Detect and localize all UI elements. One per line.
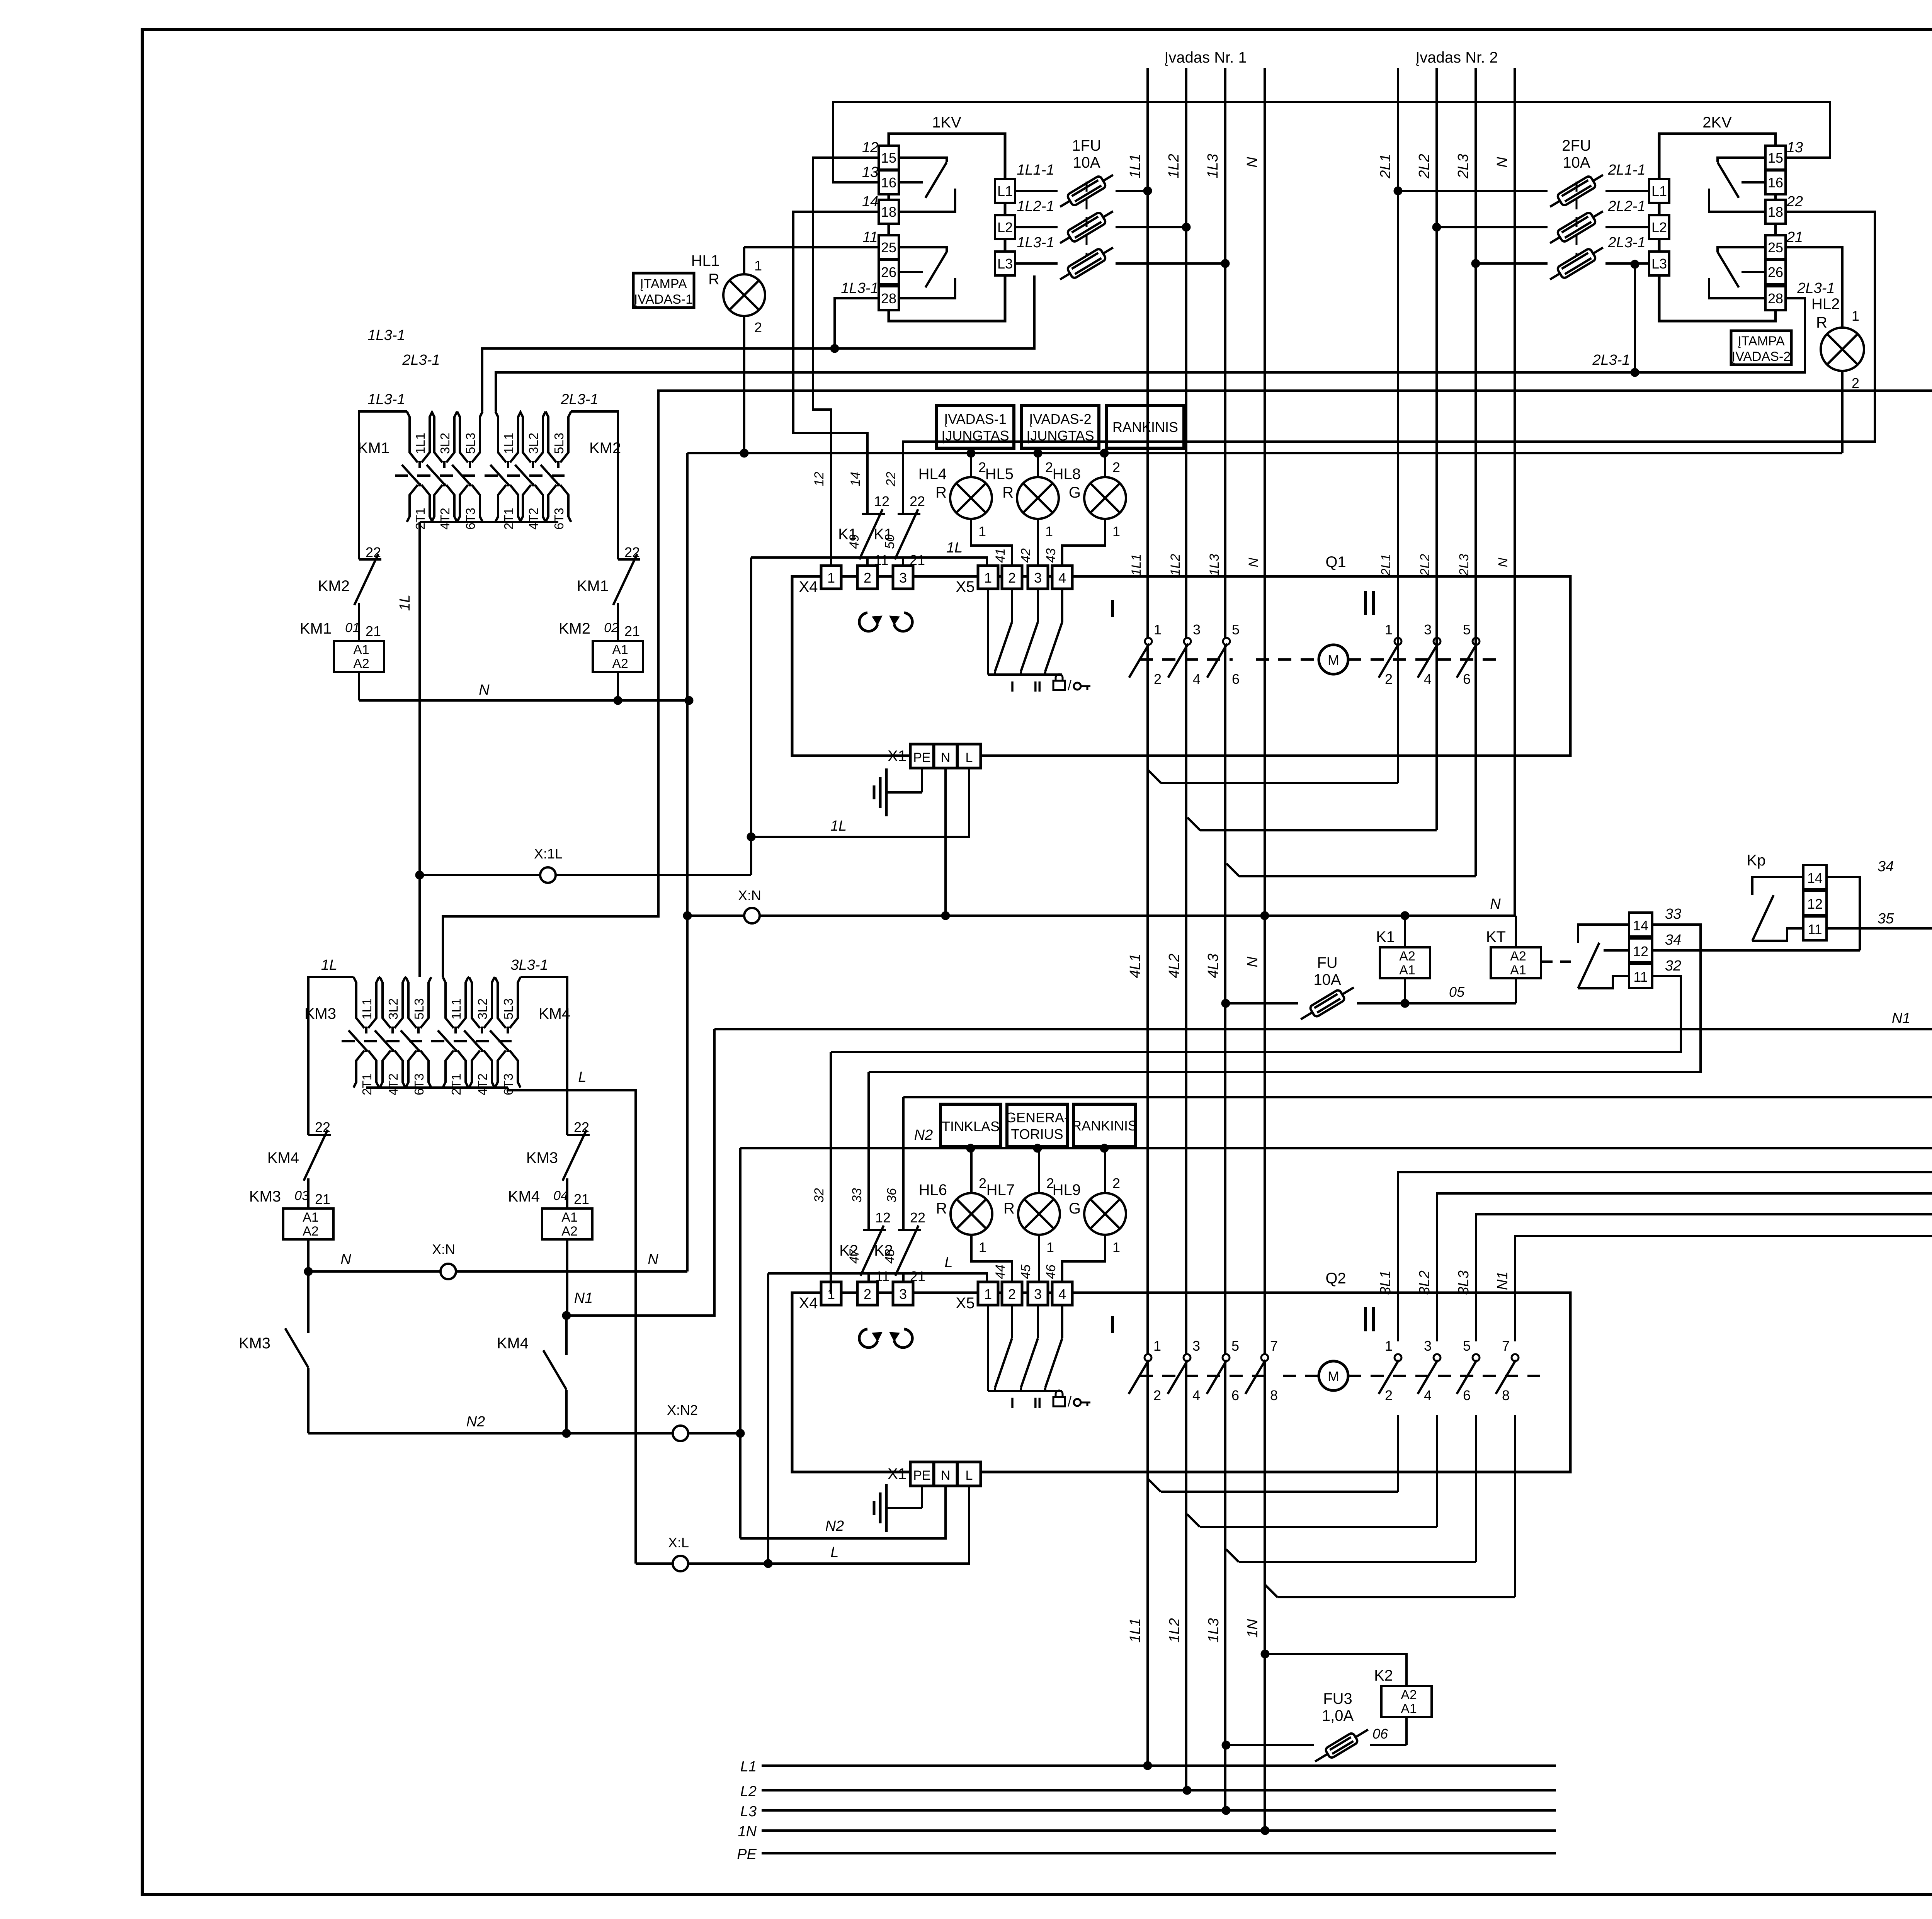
svg-text:12: 12 xyxy=(812,472,827,486)
svg-text:44: 44 xyxy=(993,1265,1008,1279)
svg-text:2L3-1: 2L3-1 xyxy=(560,391,598,408)
svg-text:2L2-1: 2L2-1 xyxy=(1607,198,1645,214)
wire 36 horizontal xyxy=(903,1096,1932,1098)
svg-text:4: 4 xyxy=(1424,1387,1432,1403)
label box RANKINIS xyxy=(1107,406,1184,448)
dashed mechanical link xyxy=(395,474,565,477)
svg-text:A1: A1 xyxy=(1399,963,1415,977)
svg-text:34: 34 xyxy=(1878,858,1894,875)
svg-text:1L: 1L xyxy=(830,818,847,834)
wire 4L3 jog xyxy=(1226,863,1239,876)
pole blade xyxy=(1207,644,1227,678)
svg-text:R: R xyxy=(1816,314,1827,331)
svg-text:1L1: 1L1 xyxy=(449,998,463,1020)
wire HL7 pin1 to X5:3 xyxy=(1038,1235,1040,1283)
terminal X5:4 xyxy=(1052,566,1072,589)
svg-text:16: 16 xyxy=(881,175,896,190)
wire 1L3-1 left bus elbow xyxy=(359,411,407,559)
svg-text:2: 2 xyxy=(1154,671,1162,687)
svg-text:6T3: 6T3 xyxy=(463,508,478,530)
svg-text:1: 1 xyxy=(978,524,986,539)
label box RANKINIS 2 xyxy=(1073,1104,1135,1147)
pole terminal 5L3 of KM1 xyxy=(457,411,468,462)
svg-text:Q1: Q1 xyxy=(1325,554,1346,571)
svg-text:2L3: 2L3 xyxy=(1455,154,1471,178)
svg-text:N: N xyxy=(1494,157,1510,168)
svg-text:3: 3 xyxy=(1034,1286,1042,1302)
pole terminal 1L1 of KM3 xyxy=(354,977,364,1028)
pole terminal 6T3 xyxy=(557,483,560,486)
svg-text:X5: X5 xyxy=(956,578,975,595)
pole blade xyxy=(1129,1360,1149,1394)
junction 2L1-1 on feeder xyxy=(1394,187,1402,195)
svg-text:1N: 1N xyxy=(1245,1619,1261,1638)
svg-text:A1: A1 xyxy=(612,642,628,657)
svg-text:ĮJUNGTAS: ĮJUNGTAS xyxy=(941,428,1009,444)
svg-text:4L3: 4L3 xyxy=(1205,954,1221,978)
svg-text:Įvadas Nr. 1: Įvadas Nr. 1 xyxy=(1164,49,1247,66)
svg-text:KM4: KM4 xyxy=(267,1149,299,1166)
svg-text:2L3: 2L3 xyxy=(1457,554,1471,576)
svg-text:1L3-1: 1L3-1 xyxy=(367,327,405,343)
terminal X:N upper xyxy=(744,908,760,923)
svg-text:6: 6 xyxy=(1463,1387,1471,1403)
svg-text:KT: KT xyxy=(1486,928,1506,945)
svg-text:22: 22 xyxy=(910,1210,925,1226)
voltage relay 1KV xyxy=(889,134,1005,321)
svg-text:KM1: KM1 xyxy=(577,578,609,595)
svg-text:KM2: KM2 xyxy=(559,620,590,637)
svg-text:1: 1 xyxy=(1045,524,1053,539)
bus L1 xyxy=(762,1764,1556,1767)
fuse 1FU pole L2 xyxy=(1015,226,1058,228)
junction 2L2-1 on feeder xyxy=(1432,223,1441,231)
contact blade of pole xyxy=(490,1030,509,1051)
svg-text:L1: L1 xyxy=(740,1759,757,1775)
svg-text:2KV: 2KV xyxy=(1702,114,1732,131)
svg-text:2: 2 xyxy=(1385,671,1393,687)
svg-text:1: 1 xyxy=(984,1286,992,1302)
svg-text:A1: A1 xyxy=(353,642,369,657)
svg-text:18: 18 xyxy=(1768,204,1783,220)
svg-text:X:N: X:N xyxy=(738,887,761,903)
terminal 1KV:L2 xyxy=(995,215,1015,239)
junction 1L xyxy=(747,833,755,841)
svg-text:48: 48 xyxy=(883,1249,897,1264)
wire HL1 pin2 to N xyxy=(743,316,745,453)
wire 2L2 into Q1 pole xyxy=(1435,634,1438,830)
svg-text:8: 8 xyxy=(1270,1387,1278,1403)
junction 2L3-1 on feeder xyxy=(1471,259,1480,268)
svg-text:2: 2 xyxy=(1008,570,1016,586)
svg-text:1L3: 1L3 xyxy=(1206,1618,1222,1642)
svg-text:3L2: 3L2 xyxy=(475,998,490,1020)
wire X:1L line xyxy=(420,874,751,876)
wire 2L2 vertical (Įvadas-2 L2) xyxy=(1435,68,1438,830)
svg-text:02: 02 xyxy=(604,620,619,635)
contact blade of pole xyxy=(375,1030,394,1051)
terminal 1KV:16 xyxy=(879,170,899,194)
svg-text:21: 21 xyxy=(624,623,640,639)
wire 4L2 jog xyxy=(1187,818,1200,830)
svg-text:2L1: 2L1 xyxy=(1378,154,1394,178)
wire 2L1 into Q1 pole xyxy=(1397,634,1399,783)
svg-text:N: N xyxy=(648,1251,658,1268)
svg-text:RANKINIS: RANKINIS xyxy=(1112,419,1178,435)
pole blade xyxy=(1245,1360,1265,1394)
wire 35 from Kp:11 xyxy=(1827,927,1932,930)
svg-text:A2: A2 xyxy=(1401,1688,1417,1702)
svg-text:L3: L3 xyxy=(997,256,1013,272)
pole blade xyxy=(1168,1360,1188,1394)
junction N2 HL6 xyxy=(966,1144,975,1152)
coil KM4 xyxy=(542,1209,592,1239)
svg-text:5L3: 5L3 xyxy=(412,998,426,1020)
junction 2L3-1 xyxy=(1631,368,1639,377)
fuse 1FU pole L3 xyxy=(1015,262,1058,265)
dashed drive shaft xyxy=(1140,1375,1273,1377)
svg-text:46: 46 xyxy=(1044,1265,1058,1279)
svg-text:1: 1 xyxy=(1154,622,1162,637)
svg-text:10A: 10A xyxy=(1073,154,1100,171)
switch Q2 enclosure xyxy=(792,1293,1570,1472)
svg-text:L: L xyxy=(830,1544,838,1560)
pole blade xyxy=(1168,644,1188,678)
svg-text:KM4: KM4 xyxy=(497,1335,529,1352)
lock/key icon xyxy=(1053,1397,1065,1406)
svg-text:L2: L2 xyxy=(997,219,1013,235)
svg-text:2: 2 xyxy=(864,570,871,586)
svg-text:Kp: Kp xyxy=(1747,852,1766,869)
svg-text:4L1: 4L1 xyxy=(1127,954,1143,978)
fuse 2FU pole L3 xyxy=(1605,262,1649,265)
lock/key icon xyxy=(1053,681,1065,690)
wire N of KM3 xyxy=(308,1270,687,1273)
svg-text:03: 03 xyxy=(294,1188,309,1203)
svg-text:FU: FU xyxy=(1317,954,1337,971)
pole terminal 4T2 xyxy=(443,483,446,486)
svg-text:2: 2 xyxy=(1112,1175,1120,1191)
svg-text:47: 47 xyxy=(847,1249,862,1264)
terminal 2KV:L3 xyxy=(1649,252,1669,275)
svg-text:11: 11 xyxy=(1808,921,1822,937)
svg-text:A2: A2 xyxy=(303,1224,319,1239)
svg-text:22: 22 xyxy=(574,1119,589,1135)
wire N of KM coils xyxy=(359,699,689,702)
svg-text:11: 11 xyxy=(875,1268,889,1284)
wire 33 drop to K2 contact xyxy=(867,1072,870,1223)
wire 11 (1KV:25 to lamp HL1) xyxy=(744,246,879,248)
svg-text:2L3-1: 2L3-1 xyxy=(1607,235,1645,251)
svg-text:3: 3 xyxy=(1424,1338,1432,1354)
svg-text:X:N: X:N xyxy=(432,1241,455,1257)
wire X1:L to 1L xyxy=(751,768,969,837)
svg-text:43: 43 xyxy=(1044,548,1058,563)
svg-text:L: L xyxy=(944,1254,952,1271)
wire N1 long xyxy=(714,1028,1932,1030)
svg-text:KM2: KM2 xyxy=(589,440,621,457)
svg-text:6: 6 xyxy=(1231,1387,1239,1403)
svg-text:N: N xyxy=(340,1251,351,1268)
svg-text:21: 21 xyxy=(366,623,381,639)
svg-text:HL1: HL1 xyxy=(691,252,719,269)
aux contact KM1 21-22 xyxy=(618,558,640,561)
pole pin 3 xyxy=(1184,638,1191,645)
svg-text:1: 1 xyxy=(1046,1239,1054,1255)
svg-text:K2: K2 xyxy=(1374,1667,1393,1684)
wire 3L3 to Q2 pole xyxy=(1476,1214,1932,1341)
svg-text:1N: 1N xyxy=(738,1824,757,1840)
terminal 1KV:L1 xyxy=(995,179,1015,203)
svg-text:06: 06 xyxy=(1372,1726,1388,1742)
label wire 1L to X5:1 xyxy=(751,558,987,566)
junction N HL5 xyxy=(1034,449,1042,457)
svg-text:50: 50 xyxy=(883,534,897,549)
svg-text:12: 12 xyxy=(1633,943,1648,959)
wire coil KM1 to N xyxy=(358,672,360,700)
contact blade of pole xyxy=(427,465,446,486)
svg-text:HL2: HL2 xyxy=(1811,296,1840,313)
svg-text:12: 12 xyxy=(875,1210,891,1226)
wire 2L3-1 right bus elbow xyxy=(571,411,618,559)
position I bar xyxy=(1111,1316,1114,1333)
pole pin 1 xyxy=(1395,1354,1401,1361)
wire X1:N down to X:N line xyxy=(944,768,947,916)
pole pin 5 xyxy=(1473,1354,1480,1361)
svg-text:X4: X4 xyxy=(799,1295,818,1312)
pole terminal 3L2 of KM4 xyxy=(469,977,480,1028)
pole terminal 5L3 of KM3 xyxy=(406,977,417,1028)
svg-text:6: 6 xyxy=(1463,671,1471,687)
svg-text:1L: 1L xyxy=(321,957,337,973)
svg-text:KM1: KM1 xyxy=(358,440,389,457)
terminal 2KV:L2 xyxy=(1649,215,1669,239)
pole terminal 3L2 of KM2 xyxy=(520,411,531,462)
wire L riser xyxy=(767,1273,769,1564)
svg-text:N2: N2 xyxy=(825,1518,844,1534)
pole blade xyxy=(1379,1360,1399,1394)
svg-text:I: I xyxy=(1010,1395,1015,1411)
wire HL6 pin1 to X5:2 xyxy=(971,1235,1012,1283)
svg-text:N2: N2 xyxy=(466,1414,485,1430)
svg-text:A2: A2 xyxy=(1510,949,1526,964)
junction N mains xyxy=(1260,911,1269,920)
terminal 2KV:26 xyxy=(1765,260,1786,284)
svg-text:3L1: 3L1 xyxy=(1378,1270,1394,1295)
svg-text:HL9: HL9 xyxy=(1053,1181,1081,1198)
wire 1L1 vertical (Įvadas-1 L1) xyxy=(1146,68,1149,1766)
svg-text:34: 34 xyxy=(1665,932,1681,948)
svg-text:X:N2: X:N2 xyxy=(667,1402,698,1418)
svg-text:RANKINIS: RANKINIS xyxy=(1071,1118,1137,1134)
svg-text:II: II xyxy=(1033,679,1041,695)
svg-text:PE: PE xyxy=(913,750,930,765)
wire 1L output xyxy=(418,522,421,977)
svg-text:II: II xyxy=(1033,1395,1041,1411)
svg-text:L: L xyxy=(966,750,973,765)
svg-text:TINKLAS: TINKLAS xyxy=(942,1118,1000,1134)
svg-text:1L2-1: 1L2-1 xyxy=(1017,198,1054,214)
svg-text:R: R xyxy=(1002,484,1014,501)
wire N riser xyxy=(686,453,689,1271)
junction 06 on 1L3 xyxy=(1222,1741,1230,1749)
svg-text:22: 22 xyxy=(366,544,381,560)
wire X:N line xyxy=(687,914,1516,917)
svg-text:L2: L2 xyxy=(740,1783,757,1800)
aux contact KM3 21-22 xyxy=(567,1134,590,1136)
wire HL4 pin1 to X5:2 xyxy=(971,519,1012,566)
wire 36 drop to K2 contact xyxy=(902,1097,905,1223)
lamp HL2 xyxy=(1821,328,1864,371)
svg-text:32: 32 xyxy=(1665,958,1681,974)
svg-text:1: 1 xyxy=(984,570,992,586)
wire 3L2 to Q2 pole xyxy=(1437,1193,1932,1341)
svg-text:1L3: 1L3 xyxy=(1207,554,1222,576)
wire N2 control line xyxy=(740,1147,1932,1149)
wire N1 to Q2 pole xyxy=(1515,1236,1932,1341)
terminal X:1L xyxy=(540,867,556,883)
pole terminal 1L1 of KM1 xyxy=(407,411,418,462)
control switch blades xyxy=(987,1306,989,1391)
svg-text:2L3-1: 2L3-1 xyxy=(1797,280,1835,296)
svg-text:12: 12 xyxy=(1807,896,1823,912)
svg-text:1L1: 1L1 xyxy=(1127,1618,1143,1642)
svg-text:2L3-1: 2L3-1 xyxy=(402,352,440,368)
junction 1N K2 xyxy=(1261,1650,1269,1658)
contact Kp changeover xyxy=(1803,865,1827,889)
lamp HL7 xyxy=(1018,1193,1060,1235)
wire coil KM2 to N xyxy=(617,672,619,700)
wire 1L2 vertical (Įvadas-1 L2) xyxy=(1185,68,1187,1790)
svg-text:6T3: 6T3 xyxy=(552,508,566,530)
wire 2L3-1 (2KV:28 to KM2 bus) xyxy=(1635,298,1805,372)
svg-text:2T1: 2T1 xyxy=(360,1073,374,1095)
junction N2 HL9 xyxy=(1100,1144,1109,1152)
svg-text:1: 1 xyxy=(1153,1338,1161,1354)
wire 22 (2KV:18 to K1 contact 2) xyxy=(903,212,1875,507)
junction N2 to Q2 xyxy=(736,1429,745,1438)
svg-text:4: 4 xyxy=(1058,1286,1066,1302)
ground of Q1 xyxy=(886,791,922,794)
wire N2 bottom xyxy=(308,1432,740,1435)
pole pin 1 xyxy=(1145,638,1152,645)
svg-text:2L3-1: 2L3-1 xyxy=(1592,352,1630,368)
svg-text:01: 01 xyxy=(345,620,360,635)
wire 34 from KT:12 xyxy=(1652,949,1860,952)
svg-text:KM4: KM4 xyxy=(508,1188,540,1205)
svg-text:4: 4 xyxy=(1058,570,1066,586)
wire L output of KM4 xyxy=(508,1088,636,1564)
terminal X:N2 xyxy=(673,1426,688,1441)
wire L to X5:1 of Q2 xyxy=(768,1273,987,1283)
wire 1L3-1 (1KV:28 to KM1 bus) xyxy=(835,298,879,348)
svg-text:L: L xyxy=(578,1069,586,1085)
svg-text:N: N xyxy=(479,682,490,698)
label box ĮTAMPA ĮVADAS-1 xyxy=(633,273,694,308)
contact K2 (22-21) xyxy=(902,1223,905,1230)
terminal X5:1 xyxy=(978,1282,998,1305)
svg-text:8: 8 xyxy=(1502,1387,1510,1403)
aux contact KM4 21-22 xyxy=(308,1134,331,1136)
svg-text:Q2: Q2 xyxy=(1325,1270,1346,1287)
wire PE to earth Q2 xyxy=(921,1486,923,1508)
pole blade xyxy=(1207,1360,1227,1394)
svg-text:15: 15 xyxy=(1768,150,1783,166)
junction 1L1-1 on feeder xyxy=(1143,187,1152,195)
svg-text:L2: L2 xyxy=(1651,219,1667,235)
lamp HL8 xyxy=(1084,477,1126,519)
svg-text:22: 22 xyxy=(910,493,925,509)
pole terminal 4T2 xyxy=(391,1049,394,1052)
terminal X:N xyxy=(440,1264,456,1279)
svg-text:4T2: 4T2 xyxy=(526,508,541,530)
svg-text:3: 3 xyxy=(1192,1338,1200,1354)
svg-text:3: 3 xyxy=(899,570,907,586)
bus L3 xyxy=(762,1809,1556,1812)
svg-text:3: 3 xyxy=(1034,570,1042,586)
svg-text:X1: X1 xyxy=(888,1465,906,1482)
svg-text:/: / xyxy=(1068,677,1071,693)
terminal X4:3 xyxy=(893,1282,913,1305)
terminal 2KV:28 xyxy=(1765,286,1786,310)
pole blade xyxy=(1129,644,1149,678)
svg-text:6T3: 6T3 xyxy=(501,1073,515,1095)
svg-text:1L2: 1L2 xyxy=(1166,154,1182,178)
svg-text:PE: PE xyxy=(737,1846,757,1863)
coil KM1 xyxy=(334,641,384,672)
terminal 1KV:25 xyxy=(879,235,899,259)
svg-text:18: 18 xyxy=(881,204,896,220)
position II bars xyxy=(1364,1307,1367,1331)
terminal 1KV:18 xyxy=(879,200,899,224)
svg-text:35: 35 xyxy=(1878,911,1894,927)
junction N2 KM4 xyxy=(562,1429,571,1438)
fuse 1FU pole L1 xyxy=(1015,190,1058,192)
svg-text:M: M xyxy=(1328,652,1339,668)
svg-text:5L3: 5L3 xyxy=(501,998,515,1020)
svg-text:R: R xyxy=(936,1200,947,1217)
dashed mechanical link xyxy=(342,1040,514,1042)
svg-text:A2: A2 xyxy=(612,656,628,671)
svg-text:N: N xyxy=(941,1468,951,1483)
motor rotation arrow ccw xyxy=(859,613,878,631)
contact blade of pole xyxy=(515,465,534,486)
svg-text:4T2: 4T2 xyxy=(475,1073,490,1095)
junction N1 xyxy=(562,1311,571,1320)
svg-text:I: I xyxy=(1010,679,1015,695)
position II bars xyxy=(1364,591,1367,615)
pole pin 7 xyxy=(1261,1354,1268,1361)
junction N K1 xyxy=(1401,911,1409,920)
svg-text:N: N xyxy=(1490,896,1501,912)
junction 1L output xyxy=(415,871,424,879)
svg-text:1: 1 xyxy=(1112,1239,1120,1255)
coil K2 xyxy=(1381,1686,1432,1717)
wire 34 from Kp:14 xyxy=(1827,877,1860,950)
terminal X4:2 xyxy=(857,566,878,589)
svg-text:A1: A1 xyxy=(1510,963,1526,977)
svg-text:14: 14 xyxy=(1807,870,1823,886)
svg-text:13: 13 xyxy=(1787,139,1803,156)
svg-text:2T1: 2T1 xyxy=(449,1073,463,1095)
svg-text:KM2: KM2 xyxy=(318,578,350,595)
wire coil KM4 to N1 xyxy=(566,1239,568,1316)
svg-text:21: 21 xyxy=(574,1191,589,1207)
terminal 1KV:26 xyxy=(879,260,899,284)
svg-text:KM4: KM4 xyxy=(539,1005,570,1022)
coil K1 xyxy=(1404,916,1406,947)
svg-text:14: 14 xyxy=(848,472,863,486)
